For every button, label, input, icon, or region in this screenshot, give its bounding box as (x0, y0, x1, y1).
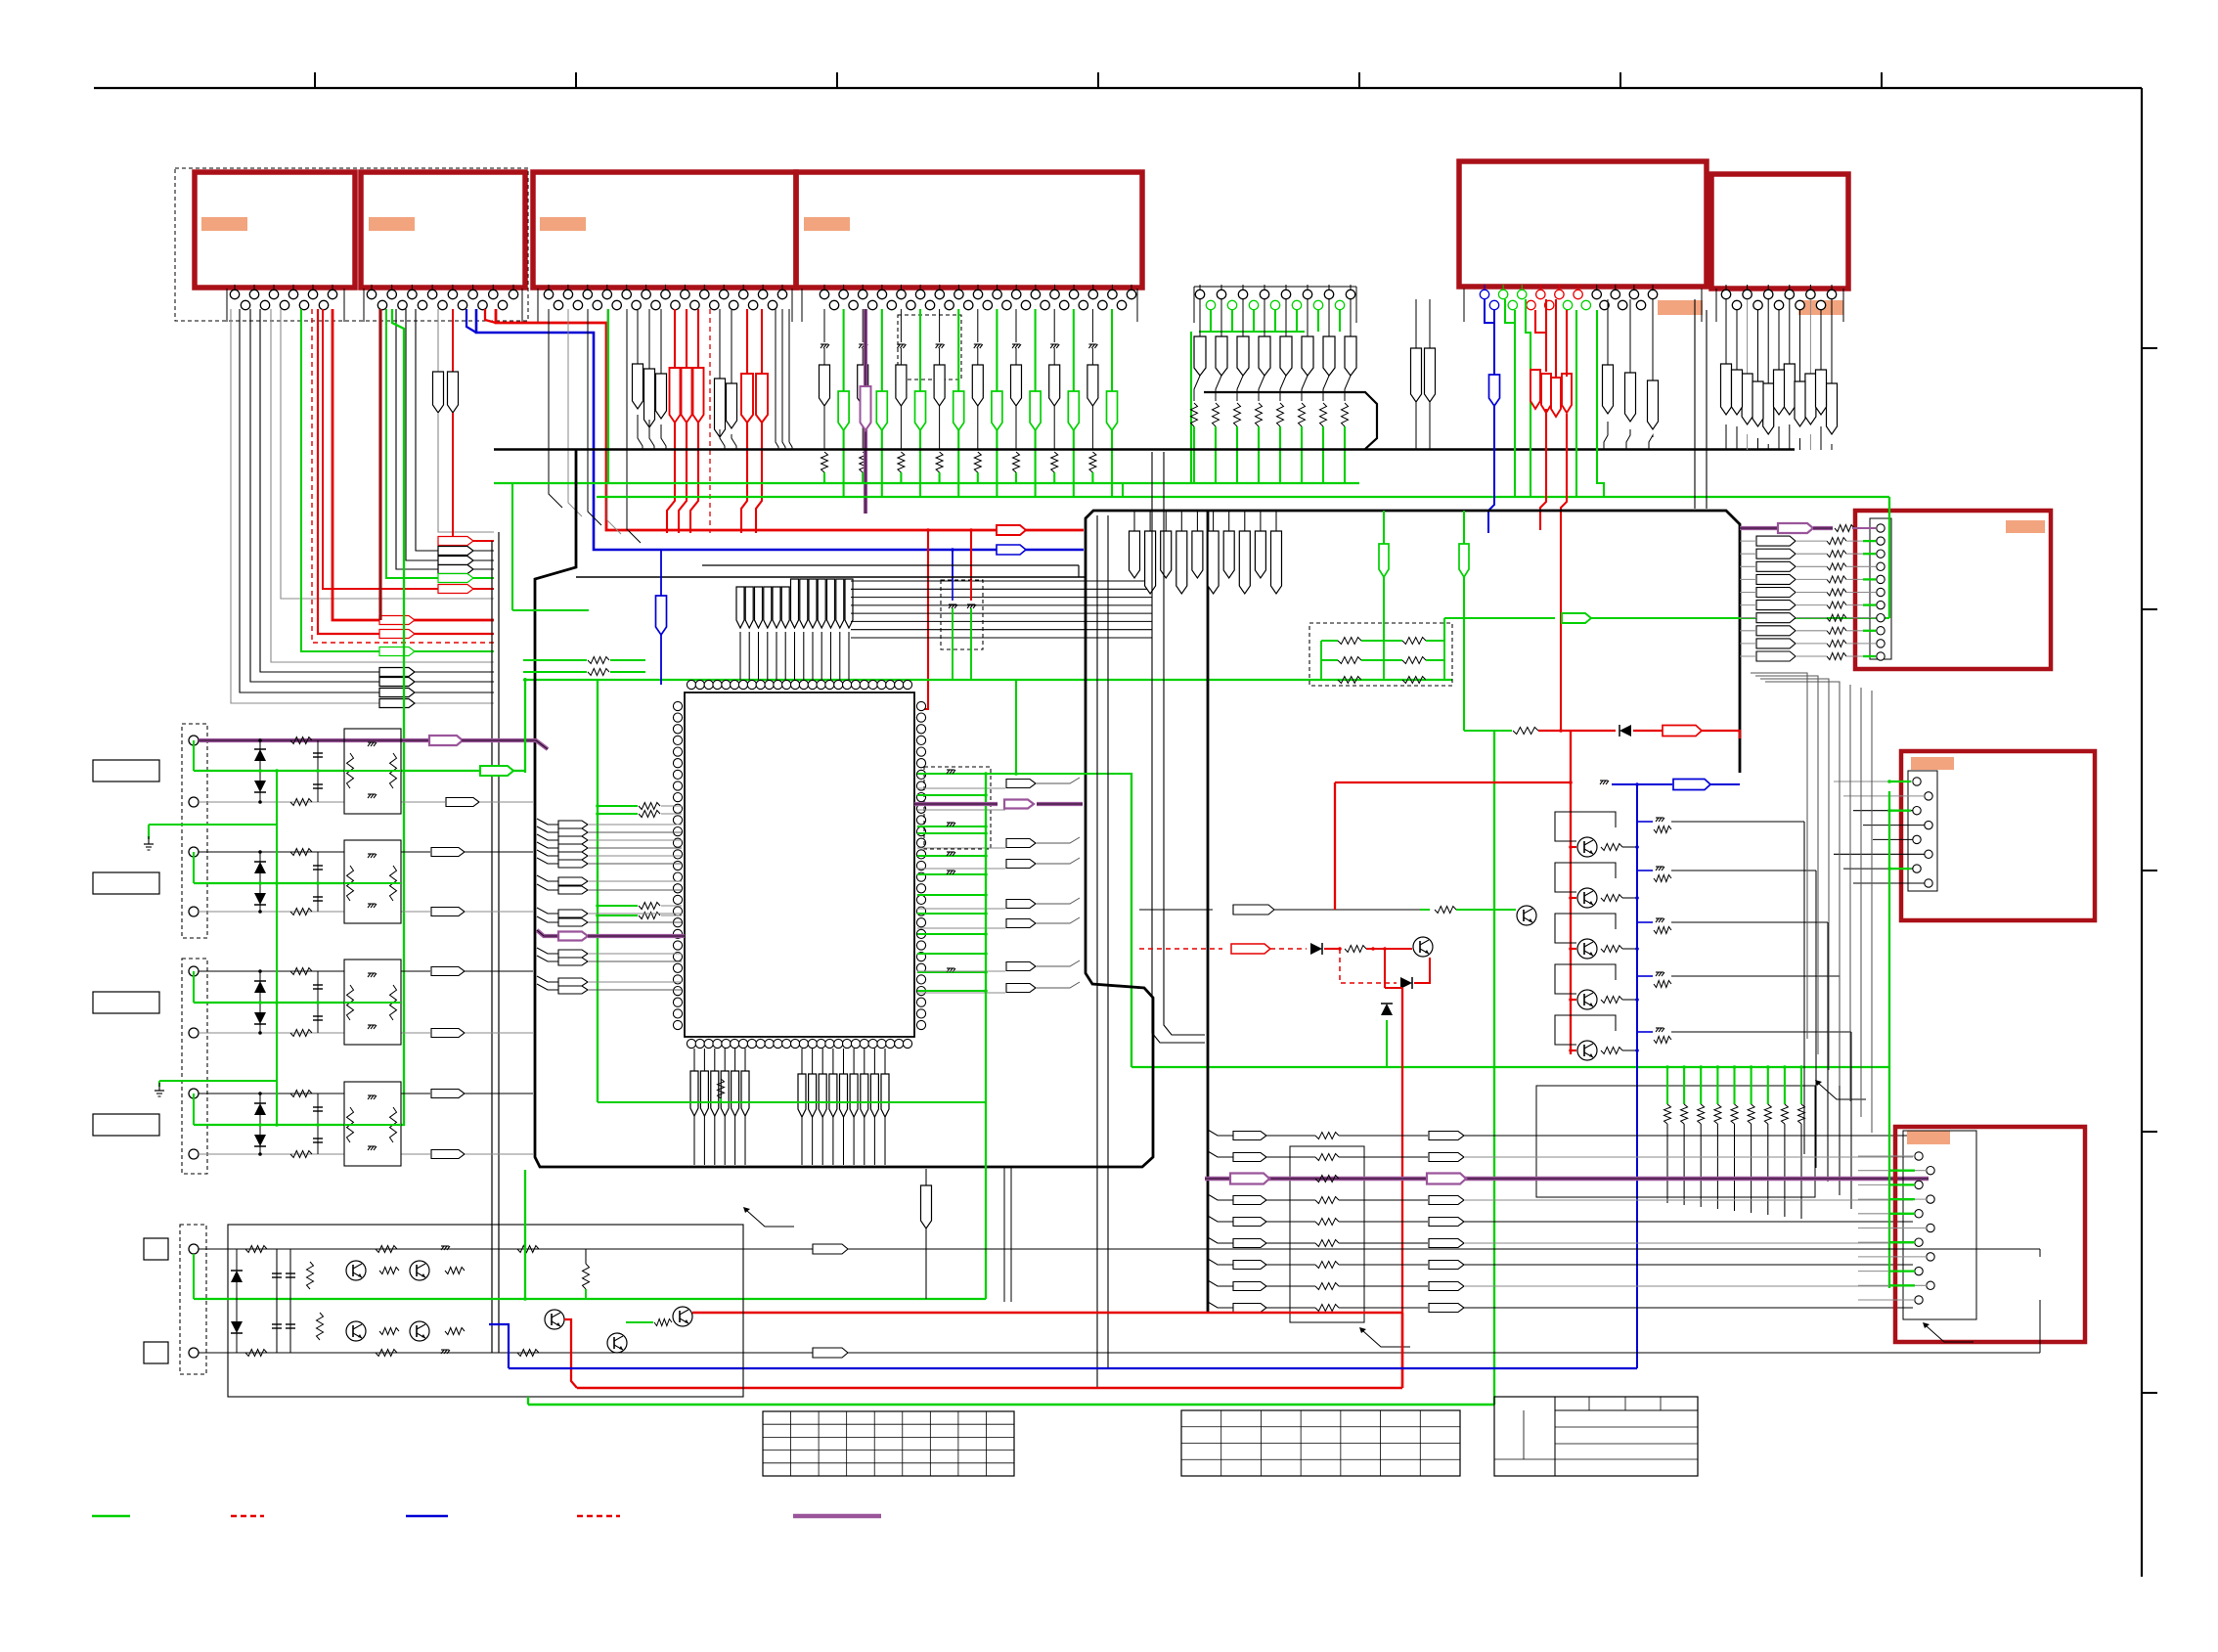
red tag pair CN3 right (746, 309, 748, 374)
resistor (1315, 1283, 1339, 1290)
green bus vertical left groups (276, 771, 278, 1125)
label row wire (1208, 1151, 1234, 1157)
blue stub with cap glyph (1637, 870, 1653, 871)
left group 4 top row wire (199, 1093, 344, 1094)
wire tag (755, 587, 763, 628)
CN2 pin (492, 285, 494, 290)
resistor (639, 903, 660, 910)
plain wires CN3 right (775, 309, 776, 430)
wire tag R (1176, 531, 1187, 594)
wire from transistor row to right bundle (1671, 1031, 1851, 1033)
wire tag R (1145, 531, 1156, 594)
wire tag R green (992, 391, 1002, 430)
audio green stub and resistor (626, 1321, 653, 1323)
green vertical x537 upper (524, 678, 526, 773)
resistor (1013, 452, 1020, 472)
resistor (1338, 677, 1361, 684)
wire tag R green (915, 391, 926, 430)
legend purple sample (793, 1514, 881, 1519)
frame tick top 4 (1097, 72, 1099, 88)
wire label (1756, 588, 1796, 598)
blue stub with cap glyph (1637, 821, 1653, 823)
audio row pills (813, 1244, 848, 1254)
main green bus line y494 (494, 482, 1359, 484)
wire tag R (1742, 374, 1752, 424)
audio left labels (144, 1238, 168, 1260)
esd glyph (897, 343, 905, 345)
resistor (1315, 1176, 1339, 1183)
QFP IC U1 body (685, 692, 914, 1037)
CN3 pin (593, 300, 601, 309)
resistor ladder outline (1536, 1086, 1815, 1197)
transistor Q7 (1413, 937, 1433, 957)
wire hook from top connector (271, 309, 494, 662)
green wire to bus (1236, 426, 1238, 484)
wire label (1233, 1239, 1266, 1248)
CN1 pin (241, 300, 249, 309)
resistor (898, 452, 905, 472)
wire tag R (1411, 348, 1422, 402)
resistor (1402, 677, 1426, 684)
CN-C pin (1915, 1238, 1923, 1246)
left group 1 bottom row wire (199, 801, 344, 803)
purple wire right of chip (914, 802, 998, 806)
green ladder wire (1683, 1067, 1685, 1104)
resistor (1698, 1104, 1705, 1124)
wire tag R (1271, 531, 1282, 594)
wire from CN7 pin (1242, 299, 1244, 336)
green wire right (1591, 617, 1889, 619)
esd glyph (947, 851, 954, 853)
CN-B pin (1925, 879, 1932, 887)
esd glyph (1012, 343, 1020, 345)
wire label pill left of chip (537, 908, 558, 914)
purple wire tag (861, 386, 871, 430)
left group 2 jack circles (189, 847, 199, 857)
CN3 pin (587, 285, 589, 290)
green stubs CN-A (1863, 540, 1876, 542)
resistor (860, 452, 866, 472)
CN4 pin (1015, 285, 1017, 290)
CN-C pin (1927, 1253, 1934, 1261)
resistor (639, 803, 660, 810)
wire tag R (1795, 381, 1805, 426)
resistor (821, 452, 828, 472)
green bus into CN-A area (1888, 497, 1890, 618)
CN-C pin (1915, 1210, 1923, 1218)
CN-B inner strip (1908, 771, 1937, 891)
green label (1562, 613, 1591, 623)
CN1 pin (234, 285, 236, 290)
green bus to resistor grid y695 (523, 679, 1452, 681)
wire tag R (1816, 370, 1827, 415)
CN4 pin (907, 300, 915, 309)
green ladder wire (1800, 1067, 1802, 1104)
CN7 pin (1285, 285, 1287, 290)
black wires from CN5 with tags (1607, 299, 1609, 365)
wire label (438, 574, 473, 583)
wire tag R (896, 365, 907, 406)
green stub CN7 (1317, 310, 1319, 332)
wire from CN6 pin row2 (1820, 310, 1822, 370)
left group 4 diode pair D (259, 1094, 261, 1154)
CN2 pin (438, 300, 447, 309)
tag pair right of CN7 (1415, 299, 1417, 348)
CN-C row wire (1858, 1256, 1927, 1258)
wire label (438, 557, 473, 565)
wire label (431, 1150, 465, 1159)
green label row (401, 770, 481, 772)
left group 3 green link (193, 971, 195, 1003)
vertical wires under block A (1003, 1167, 1005, 1302)
label row wire (1208, 1194, 1234, 1200)
CN4 pin (849, 300, 858, 309)
green vertical x1157 (1131, 773, 1132, 1067)
purple wire row cont (462, 740, 548, 749)
wire label (1006, 860, 1036, 869)
CN2 pin (431, 285, 433, 290)
arrow ref CN-C (1923, 1322, 1930, 1328)
wire tag (798, 1074, 806, 1117)
CN2 pin bracket (363, 289, 365, 322)
wire tag R (1223, 531, 1234, 578)
wire hook from top connector (260, 309, 494, 672)
green base resistor (1420, 909, 1430, 911)
transistor Q2 (1577, 888, 1597, 908)
resistor row green (1321, 679, 1338, 681)
resistor (1299, 403, 1306, 426)
CN4 pin (1079, 300, 1087, 309)
table T2 (1181, 1410, 1460, 1476)
CN-C pin (1915, 1267, 1923, 1274)
green ladder wire (1784, 1067, 1786, 1104)
wires above chip (739, 632, 741, 680)
CN-B pin (1925, 850, 1932, 858)
CN-B pin (1913, 835, 1921, 843)
wire tag R (1648, 380, 1659, 429)
wire blue stub down into block (952, 550, 954, 580)
green stub CN7 (1231, 310, 1233, 332)
blue wire tag (1489, 375, 1500, 406)
CN4 pin (862, 285, 864, 290)
QFP IC U1 top pins (687, 680, 695, 689)
green stubs CN-C (1889, 1170, 1915, 1172)
left group 4 caps C (317, 1094, 319, 1154)
wire tag (870, 1074, 878, 1117)
green junction into red wire (1464, 730, 1494, 732)
red wire y747 with diode and label (1494, 730, 1512, 732)
resistor (1764, 1104, 1771, 1124)
wire from CN7 pin (1307, 299, 1309, 336)
CN3 pin (762, 285, 764, 290)
resistor (1681, 1104, 1688, 1124)
IC block B left edge (1207, 511, 1210, 1314)
CN-A inner strip (1870, 518, 1891, 659)
resistor (974, 452, 981, 472)
left group 4 bottom row wire (199, 1153, 344, 1155)
wire tag (809, 1074, 817, 1117)
CN-B pin (1913, 865, 1921, 872)
gray stubs right of chip (917, 787, 1005, 789)
wire hook from top connector (301, 309, 494, 651)
green tag (1459, 544, 1469, 577)
long green vertical x1528 (1493, 731, 1495, 1405)
wire label (1756, 639, 1796, 648)
esd glyph (821, 343, 828, 345)
wire label (1429, 1196, 1464, 1205)
CN-A pin (1877, 601, 1885, 608)
wire tag R (1774, 370, 1785, 415)
wire label (431, 1090, 465, 1098)
base loop wire (1555, 1015, 1616, 1045)
resistor (639, 811, 660, 818)
red wire y800 horizontal (1335, 781, 1571, 783)
caps in box (949, 603, 956, 605)
resistor (1748, 1104, 1754, 1124)
wire from transistor row to right bundle (1671, 921, 1828, 923)
CN3 pin (548, 285, 550, 290)
CN5 pin (1527, 300, 1535, 309)
wire hook from top connector (396, 309, 494, 569)
dashed connector boxes left (182, 724, 207, 938)
resistor (1315, 1197, 1339, 1204)
purple into CN-A (1740, 526, 1778, 530)
wire label (1006, 900, 1036, 909)
resistor (1827, 589, 1846, 596)
CN4 pin (843, 285, 845, 290)
CN-C row wire (1858, 1284, 1927, 1286)
wire label (1429, 1261, 1464, 1270)
CN2 pin (411, 285, 413, 290)
CN-C row wire (1858, 1170, 1927, 1172)
CN3 pin (567, 285, 569, 290)
CN7 pin (1335, 300, 1344, 309)
purple label (1230, 1174, 1269, 1184)
audio diode pair (236, 1249, 238, 1353)
CN6 pin (1753, 300, 1762, 309)
wire hook from top connector (250, 309, 494, 682)
wire tag R (1784, 364, 1795, 415)
CN3 pin (573, 300, 582, 309)
resistor (1315, 1240, 1339, 1247)
green vertical x537 lower (524, 1170, 526, 1299)
wire label (1429, 1132, 1464, 1140)
long blue vertical x1674 (1636, 784, 1638, 1368)
green ladder wire (1767, 1067, 1769, 1104)
wire tag R (858, 365, 868, 406)
resistor above audio (925, 1169, 927, 1185)
wire tag R (1752, 381, 1763, 426)
CN-C row wire (1858, 1228, 1927, 1229)
CN-A pin (1877, 524, 1885, 532)
wire label pill left of chip (537, 826, 558, 832)
wire hook from top connector (312, 309, 494, 643)
wire from CN7 pin (1199, 299, 1201, 336)
CN-A pin (1877, 562, 1885, 570)
CN3 pin (710, 300, 719, 309)
CN-C row wire (1858, 1241, 1915, 1243)
wire label pill left of chip (537, 819, 558, 825)
left group 2 resistor on top row (290, 849, 312, 856)
connector block CN3 (533, 172, 796, 288)
CN3 pin (703, 285, 705, 290)
arrow ref at resistor box (1359, 1327, 1366, 1333)
label highlight in CN4 (804, 217, 850, 231)
wire label (446, 798, 479, 807)
left group 3 bottom row wire (199, 1032, 344, 1034)
wire label pill left of chip (537, 884, 558, 890)
CN4 pin (1117, 300, 1126, 309)
wire tag (836, 579, 844, 628)
wire label (1756, 536, 1796, 546)
esd glyph (947, 967, 954, 969)
resistor row green (1321, 640, 1338, 642)
green wire to bus (1215, 426, 1217, 484)
CN7 pin (1242, 285, 1244, 290)
CN1 pin (253, 285, 255, 290)
transistor Q3 (1577, 939, 1597, 959)
resistor (1827, 551, 1846, 558)
CN6 pin (1732, 300, 1741, 309)
resistor (1256, 403, 1263, 426)
IC block A outline with shared top edge (535, 450, 1740, 1167)
wire tag R (1192, 531, 1203, 578)
CN2 pin (398, 300, 407, 309)
left group 2 top row wire (199, 851, 344, 853)
wire label pill left of chip (537, 850, 558, 856)
wire from CN6 pin row2 (1757, 310, 1759, 381)
CN2 pin (371, 285, 373, 290)
dashed outline in CN4 area (898, 315, 961, 380)
CN7 connector outline (1193, 287, 1195, 323)
CN6 pin (1809, 285, 1811, 290)
esd glyph (947, 870, 954, 871)
CN-C row wire (1858, 1299, 1915, 1301)
green wire to bus (1258, 426, 1260, 484)
wire green from CN4 pin (1035, 309, 1037, 391)
wire label (1233, 1132, 1266, 1140)
green vertical right x1932 (1888, 791, 1890, 1288)
left group 3 resistor on top row (290, 968, 312, 975)
wire tag R (1732, 370, 1743, 415)
green stub CN7 (1296, 310, 1298, 332)
CN5 pin (1558, 285, 1560, 290)
blue label (1673, 780, 1710, 790)
wire label pill left of chip (537, 834, 558, 840)
green wire to bus (1322, 426, 1324, 484)
wire from transistor row to right bundle (1671, 975, 1840, 977)
red vertical from circuit down (1384, 949, 1386, 988)
wire tag R (934, 365, 945, 406)
red stub to transistor (1571, 1049, 1576, 1051)
frame tick top 5 (1358, 72, 1360, 88)
audio dashed connector (180, 1225, 206, 1374)
resistor (1827, 538, 1846, 545)
left group 3 top row wire (199, 970, 344, 972)
resistor (1315, 1305, 1339, 1312)
green stub CN7 (1339, 310, 1341, 332)
connector block CN6 (1711, 174, 1848, 289)
wire tag (818, 579, 825, 628)
resistor (1714, 1104, 1721, 1124)
frame tick top 2 (575, 72, 577, 88)
wire green long from CN2 (392, 309, 404, 1125)
wire tag R red (670, 368, 681, 423)
wire label (438, 585, 473, 594)
purple wire left of chip (537, 930, 558, 936)
transistor Q4 (1577, 990, 1597, 1009)
blue wire from CN5 pins 1,2 (1485, 299, 1494, 323)
audio row risers to CN-C (2039, 1300, 2041, 1353)
wire red stub into cap box (970, 530, 972, 580)
frame tick top 7 (1881, 72, 1883, 88)
wire label (1429, 1218, 1464, 1227)
label highlight near CN5 pins (1658, 300, 1703, 315)
wire tag R (1302, 336, 1313, 376)
CN4 pin (964, 300, 973, 309)
CN4 pin (977, 285, 979, 290)
green tag (1379, 544, 1389, 577)
resistor box of label rows (1290, 1146, 1364, 1322)
wire hook from top connector (333, 309, 494, 620)
wire label (1006, 984, 1036, 993)
left group 1 jack circles (189, 736, 199, 745)
esd glyph (1050, 343, 1058, 345)
CN-B pin (1913, 778, 1921, 785)
wire tag R (1194, 336, 1206, 376)
CN2 pin (512, 285, 514, 290)
connector block CN2 (361, 172, 525, 288)
wire tag R (1280, 336, 1292, 376)
wire tag R (1259, 336, 1270, 376)
resistor (1827, 602, 1846, 608)
green feed x1039 (1015, 680, 1017, 774)
resistor (1051, 452, 1058, 472)
wire tag R red (682, 368, 692, 423)
wire red stub down into chip area (919, 530, 928, 709)
wire label pill left of chip (537, 976, 558, 982)
CN-B wires left (1834, 781, 1913, 782)
wire from CN4 pin with ESD glyph (1015, 309, 1017, 342)
wire label (1429, 1239, 1464, 1248)
CN7 pin (1206, 300, 1215, 309)
base loop wire (1555, 914, 1616, 943)
resistor (588, 657, 609, 664)
resistor (639, 913, 660, 919)
green stubs CN-B (1889, 781, 1911, 782)
resistor (1827, 614, 1846, 621)
left group 1 diode pair D (259, 740, 261, 802)
CN6 pin (1774, 300, 1783, 309)
CN6 pin (1725, 285, 1727, 290)
wire from CN7 pin (1264, 299, 1265, 336)
wire from CN6 pin row2 (1799, 310, 1801, 381)
legend red dashed sample (231, 1515, 264, 1518)
label highlight CN-A (2006, 520, 2045, 533)
CN2 pin (418, 300, 426, 309)
block A inner top edge parallel (702, 564, 1079, 566)
wire tag R (715, 379, 726, 437)
CN-A pin (1877, 640, 1885, 647)
CN4 pin (1111, 285, 1113, 290)
green ladder wire (1666, 1067, 1668, 1104)
CN1 pin (260, 300, 269, 309)
wire label (431, 908, 465, 916)
wire from CN4 pin with ESD glyph (900, 309, 902, 342)
CN3 pin (684, 285, 686, 290)
left group 1 resistor on top row (290, 737, 312, 744)
wire label (438, 537, 473, 546)
